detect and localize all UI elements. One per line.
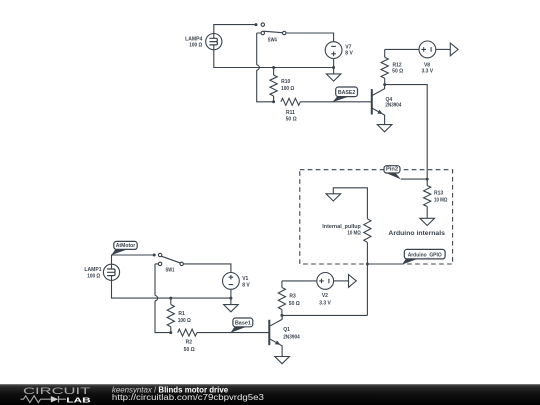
svg-text:R3: R3 (289, 294, 296, 300)
svg-text:LAMP4: LAMP4 (185, 36, 202, 42)
svg-text:100 Ω: 100 Ω (87, 274, 100, 280)
wire R3 top to V2 (282, 280, 317, 282)
svg-text:AtMotor: AtMotor (116, 243, 136, 249)
svg-text:SW4: SW4 (268, 37, 277, 43)
flag AtMotor (111, 249, 129, 255)
ground in box (pullup top) (333, 188, 367, 219)
svg-text:100 Ω: 100 Ω (178, 318, 191, 324)
svg-text:Arduino internals: Arduino internals (388, 230, 445, 237)
svg-text:50 Ω: 50 Ω (289, 301, 300, 307)
svg-text:3.3 V: 3.3 V (319, 301, 331, 307)
lamp LAMP4 (206, 34, 222, 50)
lamp LAMP1 (103, 264, 119, 280)
svg-text:http://circuitlab.com/c79cbpvr: http://circuitlab.com/c79cbpvrdg5e3 (112, 393, 265, 402)
resistor R13 (426, 179, 428, 185)
svg-text:CIRCUIT: CIRCUIT (23, 386, 91, 396)
voltage source V1 (223, 273, 240, 290)
svg-text:100 Ω: 100 Ω (189, 43, 202, 49)
transistor Q4 2N3904 (371, 89, 373, 114)
svg-text:V7: V7 (345, 44, 351, 50)
wire V7 bottom (333, 59, 335, 68)
svg-text:8 V: 8 V (345, 51, 353, 57)
wire box to Q1 collector (366, 264, 368, 315)
svg-text:10 MΩ: 10 MΩ (434, 197, 447, 203)
switch SW4 (257, 33, 274, 102)
voltage source V2 (317, 273, 334, 290)
svg-text:R11: R11 (286, 110, 295, 116)
svg-text:R1: R1 (178, 311, 185, 317)
wire Pin2 stub (401, 178, 427, 180)
svg-text:50 Ω: 50 Ω (184, 347, 195, 353)
wire V1 bottom (230, 289, 232, 298)
svg-text:8 V: 8 V (242, 283, 250, 289)
svg-text:LAB: LAB (66, 395, 91, 404)
svg-text:50 Ω: 50 Ω (392, 68, 403, 74)
ground under V7 (333, 68, 335, 74)
ground under V1 (230, 298, 232, 305)
svg-text:V2: V2 (322, 293, 328, 299)
svg-text:Internal_pullup: Internal_pullup (322, 224, 361, 230)
ground right of V8 (450, 43, 458, 56)
wire SW1 pole to V1 (183, 264, 231, 272)
svg-text:Base1: Base1 (235, 320, 252, 326)
ground right of V2 (349, 275, 357, 288)
svg-text:LAMP1: LAMP1 (84, 267, 101, 273)
svg-text:V1: V1 (242, 276, 248, 282)
wire lamp1 top to SW1 throw (112, 255, 155, 264)
flag Base1 (231, 326, 248, 333)
flag BASE2 (332, 96, 350, 102)
wire R11 to Q4 base (300, 101, 371, 103)
svg-text:3.3 V: 3.3 V (422, 68, 434, 74)
svg-text:BASE2: BASE2 (338, 90, 356, 96)
resistor R3 (281, 281, 283, 288)
svg-text:SW1: SW1 (166, 267, 175, 273)
svg-text:2N3904: 2N3904 (385, 103, 401, 109)
voltage source V7 (325, 42, 342, 59)
resistor R12 (384, 49, 386, 57)
svg-text:Arduino_GPIO: Arduino_GPIO (408, 253, 442, 259)
wire GPIO node (367, 263, 402, 265)
wire lamp4 top to SW4 throw (214, 25, 256, 34)
ground under Q1 (275, 357, 290, 364)
dashed box Arduino internals (300, 170, 453, 264)
svg-text:R13: R13 (434, 190, 443, 196)
resistor Internal_pullup (364, 219, 371, 243)
resistor R2 (178, 329, 197, 336)
ground under R13 (420, 218, 435, 225)
resistor R1 (170, 298, 172, 304)
wire R12 top to V8 (385, 48, 419, 50)
transistor Q1 2N3904 (268, 320, 270, 345)
resistor R11 (281, 98, 300, 105)
wire V8 to ground flag (436, 48, 451, 50)
switch SW1 (155, 264, 171, 333)
svg-text:10 MΩ: 10 MΩ (347, 231, 360, 237)
svg-text:Pin2: Pin2 (386, 167, 398, 173)
voltage source V8 (419, 41, 436, 58)
wire lamp1 bottom rail (112, 280, 231, 298)
ground under Q4 (377, 125, 392, 132)
svg-text:2N3904: 2N3904 (283, 335, 300, 341)
svg-text:R10: R10 (281, 79, 290, 85)
wire V2 to ground flag (334, 280, 349, 282)
svg-text:Q1: Q1 (283, 327, 290, 333)
resistor R10 (273, 68, 275, 76)
svg-text:50 Ω: 50 Ω (286, 117, 297, 123)
wire R2 to Q1 base (197, 332, 269, 334)
svg-text:100 Ω: 100 Ω (281, 86, 294, 92)
svg-text:R2: R2 (186, 339, 193, 345)
flag Arduino_GPIO (402, 258, 419, 264)
wire Q1 collector row (282, 314, 368, 316)
wire SW4 pole to V7 (286, 33, 334, 42)
wire lamp4 bottom rail (214, 50, 334, 68)
flag Pin2 (385, 172, 401, 179)
wire Q4 collector node (385, 85, 428, 180)
